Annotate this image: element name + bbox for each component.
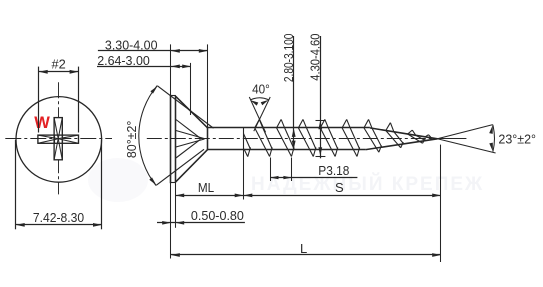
svg-text:W: W <box>34 114 50 132</box>
svg-text:ML: ML <box>198 180 214 195</box>
svg-text:2.80-3.100: 2.80-3.100 <box>281 34 296 83</box>
svg-text:S: S <box>335 180 344 195</box>
svg-text:23°±2°: 23°±2° <box>498 131 536 146</box>
svg-text:40°: 40° <box>252 82 270 97</box>
svg-text:#2: #2 <box>51 57 65 72</box>
svg-text:P3.18: P3.18 <box>318 163 349 178</box>
svg-text:L: L <box>300 241 307 256</box>
svg-text:0.50-0.80: 0.50-0.80 <box>191 208 244 223</box>
svg-text:4.30-4.60: 4.30-4.60 <box>308 34 323 81</box>
svg-text:НАДЕЖНЫЙ КРЕПЕЖ: НАДЕЖНЫЙ КРЕПЕЖ <box>251 173 484 195</box>
svg-text:2.64-3.00: 2.64-3.00 <box>97 53 150 68</box>
svg-text:7.42-8.30: 7.42-8.30 <box>33 210 84 225</box>
svg-text:80°±2°: 80°±2° <box>124 121 139 159</box>
svg-text:3.30-4.00: 3.30-4.00 <box>105 37 158 52</box>
